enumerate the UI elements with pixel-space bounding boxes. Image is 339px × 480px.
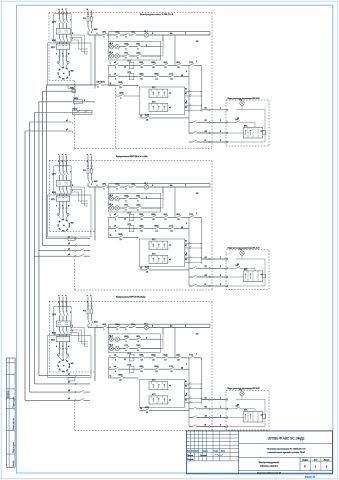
wire b2 in1 [46, 238, 90, 240]
svg-text:с заменой насосов, горелкой и: с заменой насосов, горелкой и установл. … [267, 451, 304, 454]
svg-text:а: а [65, 154, 66, 156]
terminal [209, 285, 211, 287]
wire stub into b2 [66, 156, 68, 165]
wire sub 4 [227, 141, 265, 143]
svg-text:УВП2: УВП2 [72, 109, 77, 111]
svg-text:№док.: №док. [203, 450, 209, 453]
svg-text:3: 3 [220, 275, 221, 277]
wire sub 4 [227, 426, 265, 428]
svg-text:у: у [120, 98, 121, 100]
terminal [226, 132, 228, 134]
wire tap 1 [46, 84, 115, 86]
svg-text:Л3: Л3 [205, 131, 207, 133]
svg-text:а2: а2 [261, 274, 263, 276]
svg-text:Подп. и дата: Подп. и дата [13, 397, 15, 408]
dashed outline b3 bottom-left [50, 371, 96, 373]
svg-text:10: 10 [237, 405, 239, 407]
wire exit 3 [189, 417, 226, 419]
arrow [250, 130, 251, 135]
svg-text:Функциональная ВЕНТ-05 ПВ-а8 (: Функциональная ВЕНТ-05 ПВ-а8 (5а) [116, 296, 146, 299]
svg-text:Лист: Лист [195, 451, 199, 453]
terminal [226, 258, 228, 260]
side tab [263, 274, 266, 277]
svg-text:1: 1 [220, 397, 221, 399]
unit UVP2 [72, 110, 92, 114]
wire stub into b3 [66, 297, 68, 305]
wire b1 aux rung [116, 95, 140, 97]
svg-text:10: 10 [237, 118, 239, 120]
terminal [226, 276, 228, 278]
wire tap 4 [34, 112, 92, 114]
contact [80, 391, 84, 392]
contact [80, 256, 84, 257]
svg-text:у1: у1 [66, 120, 68, 122]
svg-text:9: 9 [84, 100, 85, 102]
wire exit 3 [189, 132, 226, 134]
unit UVD [72, 89, 76, 93]
svg-text:у3: у3 [68, 249, 70, 251]
bus line 2 [42, 91, 44, 245]
svg-text:ВУ1: ВУ1 [244, 126, 247, 128]
wire stub into b2 [87, 156, 89, 165]
wire b3 in1 [39, 375, 90, 377]
svg-text:Дата: Дата [221, 451, 225, 453]
svg-text:у2: у2 [68, 382, 70, 384]
arrow [245, 130, 246, 135]
svg-text:4: 4 [220, 140, 221, 142]
svg-text:Л1: Л1 [205, 397, 207, 399]
terminal [209, 141, 211, 143]
wire sub 4 [227, 285, 265, 287]
contact [80, 250, 84, 251]
dashed outline b2 bottom [75, 289, 213, 291]
svg-text:у4: у4 [68, 398, 70, 400]
contact [192, 426, 196, 427]
wire sub 3 [227, 132, 244, 134]
junction [34, 256, 35, 257]
sub box unit [243, 411, 262, 422]
svg-text:4: 4 [220, 284, 221, 286]
wire tap 6 [25, 130, 72, 132]
terminal [209, 109, 211, 111]
svg-text:ТА УВП1: ТА УВП1 [96, 81, 105, 84]
svg-text:у3: у3 [68, 390, 70, 392]
contact [192, 141, 196, 142]
wire sub 1 [236, 399, 265, 401]
wire b3 in4 [25, 399, 90, 401]
svg-text:4: 4 [220, 424, 221, 426]
svg-text:а: а [87, 154, 88, 156]
svg-text:а: а [90, 295, 91, 297]
svg-text:а: а [58, 154, 59, 156]
svg-text:Электродвигатели У-ЛЕ-10-Ф: Электродвигатели У-ЛЕ-10-Ф [140, 13, 174, 16]
dashed outline b3 step [74, 400, 76, 430]
arrow [245, 414, 246, 419]
wire exit 4 [189, 141, 226, 143]
wire exit 2 [189, 267, 226, 269]
dashed outline b2 left [49, 160, 51, 231]
wire exit 2 [189, 408, 226, 410]
contact [192, 417, 196, 418]
dashed outline b1 step a [74, 80, 76, 148]
terminal [75, 250, 77, 252]
terminal [75, 375, 77, 377]
wire stub into b2 [59, 156, 61, 165]
terminal [226, 417, 228, 419]
svg-text:Разраб.: Разраб. [187, 459, 194, 461]
wire stub into b2 [91, 156, 93, 165]
functional block 2 [48, 160, 211, 286]
svg-text:Согласов.: Согласов. [7, 390, 9, 398]
svg-text:Взам. инв. №: Взам. инв. № [12, 418, 15, 429]
svg-text:а: а [87, 295, 88, 297]
dashed outline b1 top [49, 11, 212, 13]
wire stub into b3 [59, 297, 61, 305]
terminal [226, 408, 228, 410]
wire exit 3 [189, 276, 226, 278]
dashed outline b1 right [211, 12, 213, 148]
dashed outline b2 bottom-left [50, 231, 96, 233]
wire stub into b2 [62, 156, 64, 165]
terminal [209, 399, 211, 401]
wire tap 3 [39, 101, 95, 103]
dashed outline b1 step c [115, 88, 117, 149]
bus line 4 [33, 113, 35, 384]
svg-text:1: 1 [220, 257, 221, 259]
svg-text:Подп.: Подп. [214, 451, 219, 453]
wire stub into b3 [62, 297, 64, 305]
wire b3 in2 [34, 383, 90, 385]
control box dashed [226, 250, 269, 290]
svg-text:ВУ1: ВУ1 [244, 410, 247, 412]
svg-text:1: 1 [220, 108, 221, 110]
title block [187, 431, 333, 474]
terminal [226, 141, 228, 143]
svg-text:Л2: Л2 [205, 120, 207, 122]
terminal [209, 276, 211, 278]
signature [215, 454, 224, 456]
dashed outline b3 left [49, 301, 51, 372]
wire b3 in3 [30, 391, 90, 393]
wire b2 in2 [43, 244, 90, 246]
svg-text:Листов: Листов [324, 459, 330, 461]
wire stub into b3 [87, 297, 89, 305]
terminal [209, 408, 211, 410]
terminal [226, 122, 228, 124]
wire exit 2 [189, 121, 226, 123]
wire exit 4 [189, 426, 226, 428]
terminal [209, 132, 211, 134]
terminal [209, 417, 211, 419]
dashed outline b2 step [74, 260, 76, 290]
functional block 3 [48, 301, 211, 427]
svg-text:«Установка перекачивания РС 76: «Установка перекачивания РС 76/105-40 У-… [267, 449, 307, 451]
side tab [263, 415, 266, 418]
svg-text:у2: у2 [68, 243, 70, 245]
wire sub 1 [236, 258, 265, 260]
wire sub 3 [227, 417, 244, 419]
svg-text:Подп. и дата: Подп. и дата [13, 442, 15, 453]
svg-text:ВУ1: ВУ1 [244, 269, 247, 271]
terminal [75, 245, 77, 247]
wire exit 1 [202, 258, 227, 260]
bus line 6 [24, 131, 26, 400]
svg-text:ЭУПВК-Ф-АВС ЭС.ЭМД2: ЭУПВК-Ф-АВС ЭС.ЭМД2 [268, 437, 305, 441]
contact [192, 122, 196, 123]
svg-text:нефтяное, наружное: нефтяное, наружное [260, 465, 278, 468]
terminal [209, 258, 211, 260]
svg-text:у2: у2 [66, 129, 68, 131]
wire exit 1 [202, 109, 227, 111]
svg-text:а: а [90, 154, 91, 156]
terminal [226, 285, 228, 287]
dashed outline b2 right [211, 160, 213, 290]
contact [80, 400, 84, 401]
sub box unit [243, 271, 262, 282]
bus line 5 [29, 122, 31, 392]
arrow [245, 274, 246, 279]
svg-text:Электрооборудование: Электрооборудование [259, 462, 281, 464]
bus line 3 [38, 102, 40, 376]
terminal [75, 238, 77, 240]
svg-text:2: 2 [220, 120, 221, 122]
wire exit 4 [189, 285, 226, 287]
wire sub 3 [227, 276, 244, 278]
svg-text:у1: у1 [68, 236, 70, 238]
wire b2 in4 [34, 255, 90, 257]
contact [192, 132, 196, 133]
terminal [75, 383, 77, 385]
wire sub 2 [227, 408, 255, 410]
svg-text:10: 10 [237, 264, 239, 266]
svg-text:Проект: Проект [187, 455, 193, 457]
svg-text:Лист: Лист [314, 459, 318, 461]
terminal [209, 122, 211, 124]
terminal [226, 268, 228, 270]
functional block 1 [48, 8, 211, 134]
svg-text:а: а [62, 154, 63, 156]
dashed outline b1 left [48, 12, 50, 80]
dashed outline b2 top [49, 159, 212, 161]
svg-text:у4: у4 [68, 254, 70, 256]
svg-text:3: 3 [220, 131, 221, 133]
svg-text:а: а [58, 295, 59, 297]
unit UVP1 [73, 100, 82, 103]
sub box unit [243, 127, 262, 138]
svg-text:а: а [65, 295, 66, 297]
svg-text:Функциональная ВЕНТ-ПВ-а8 и т.: Функциональная ВЕНТ-ПВ-а8 и т.п. (5а) [116, 155, 148, 158]
dashed outline b3 right [211, 301, 213, 430]
svg-text:Л1: Л1 [205, 108, 207, 110]
contact SA [236, 122, 240, 123]
contact [192, 408, 196, 409]
bus line 1 [45, 85, 47, 239]
svg-text:Формат А4: Формат А4 [305, 475, 316, 478]
wire sub 2 [227, 267, 255, 269]
terminal [209, 426, 211, 428]
wire tap 2 [43, 90, 75, 92]
wire exit 1 [202, 399, 227, 401]
svg-text:Ящик учета при управления ВУ-3: Ящик учета при управления ВУ-3-74 [228, 248, 260, 250]
wire b2 in3 [39, 250, 90, 252]
control box dashed [226, 390, 269, 430]
arrow [250, 414, 251, 419]
terminal [226, 426, 228, 428]
wire sub 1 [236, 109, 265, 111]
svg-text:2: 2 [220, 407, 221, 409]
contact КМ1 [120, 95, 124, 96]
svg-text:у1: у1 [68, 373, 70, 375]
contact [192, 276, 196, 277]
dashed outline b1 bottom [75, 148, 213, 150]
contact [192, 285, 196, 286]
svg-text:Л3: Л3 [205, 415, 207, 417]
arrow [250, 274, 251, 279]
contact SA [236, 268, 240, 269]
contact ТА УВП1 [97, 84, 101, 85]
svg-text:Л1: Л1 [205, 257, 207, 259]
terminal [226, 399, 228, 401]
contact SA [236, 408, 240, 409]
wire tap 5 [30, 121, 73, 123]
wire stub into b3 [91, 297, 93, 305]
control box dashed [226, 100, 269, 146]
svg-text:Сухарев: Сухарев [200, 455, 207, 457]
svg-text:а: а [62, 295, 63, 297]
terminal [75, 400, 77, 402]
svg-text:УВП1: УВП1 [73, 98, 78, 100]
lamp HL [240, 101, 244, 105]
side tab [263, 131, 266, 134]
svg-text:Электроснабжение 0,4 кВ: Электроснабжение 0,4 кВ [257, 472, 282, 474]
terminal [75, 391, 77, 393]
terminal [226, 109, 228, 111]
svg-text:Ящик учета при управления ВУ-3: Ящик учета при управления ВУ-3-74 [228, 388, 260, 390]
lamp HL [240, 251, 244, 255]
wire sub 2 [227, 121, 255, 123]
svg-text:Стадия: Стадия [302, 459, 308, 461]
terminal [209, 268, 211, 270]
svg-text:Л2: Л2 [205, 407, 207, 409]
lamp HL [240, 391, 244, 395]
left margin cell strip [7, 358, 16, 467]
svg-text:а2: а2 [261, 414, 263, 416]
svg-text:Инв.№: Инв.№ [12, 461, 15, 467]
svg-text:Л3: Л3 [205, 275, 207, 277]
contact [192, 268, 196, 269]
dashed outline b3 bottom [75, 430, 213, 432]
terminal [75, 255, 77, 257]
svg-text:2: 2 [220, 266, 221, 268]
junction [38, 250, 39, 251]
svg-text:3: 3 [220, 415, 221, 417]
svg-text:Ящик учета при управления ВУ-3: Ящик учета при управления ВУ-3-74 [228, 98, 260, 100]
svg-text:Л2: Л2 [205, 266, 207, 268]
dashed outline b3 top [49, 300, 212, 302]
svg-text:а2: а2 [261, 130, 263, 132]
dashed outline b1 bottom-left [49, 79, 75, 81]
